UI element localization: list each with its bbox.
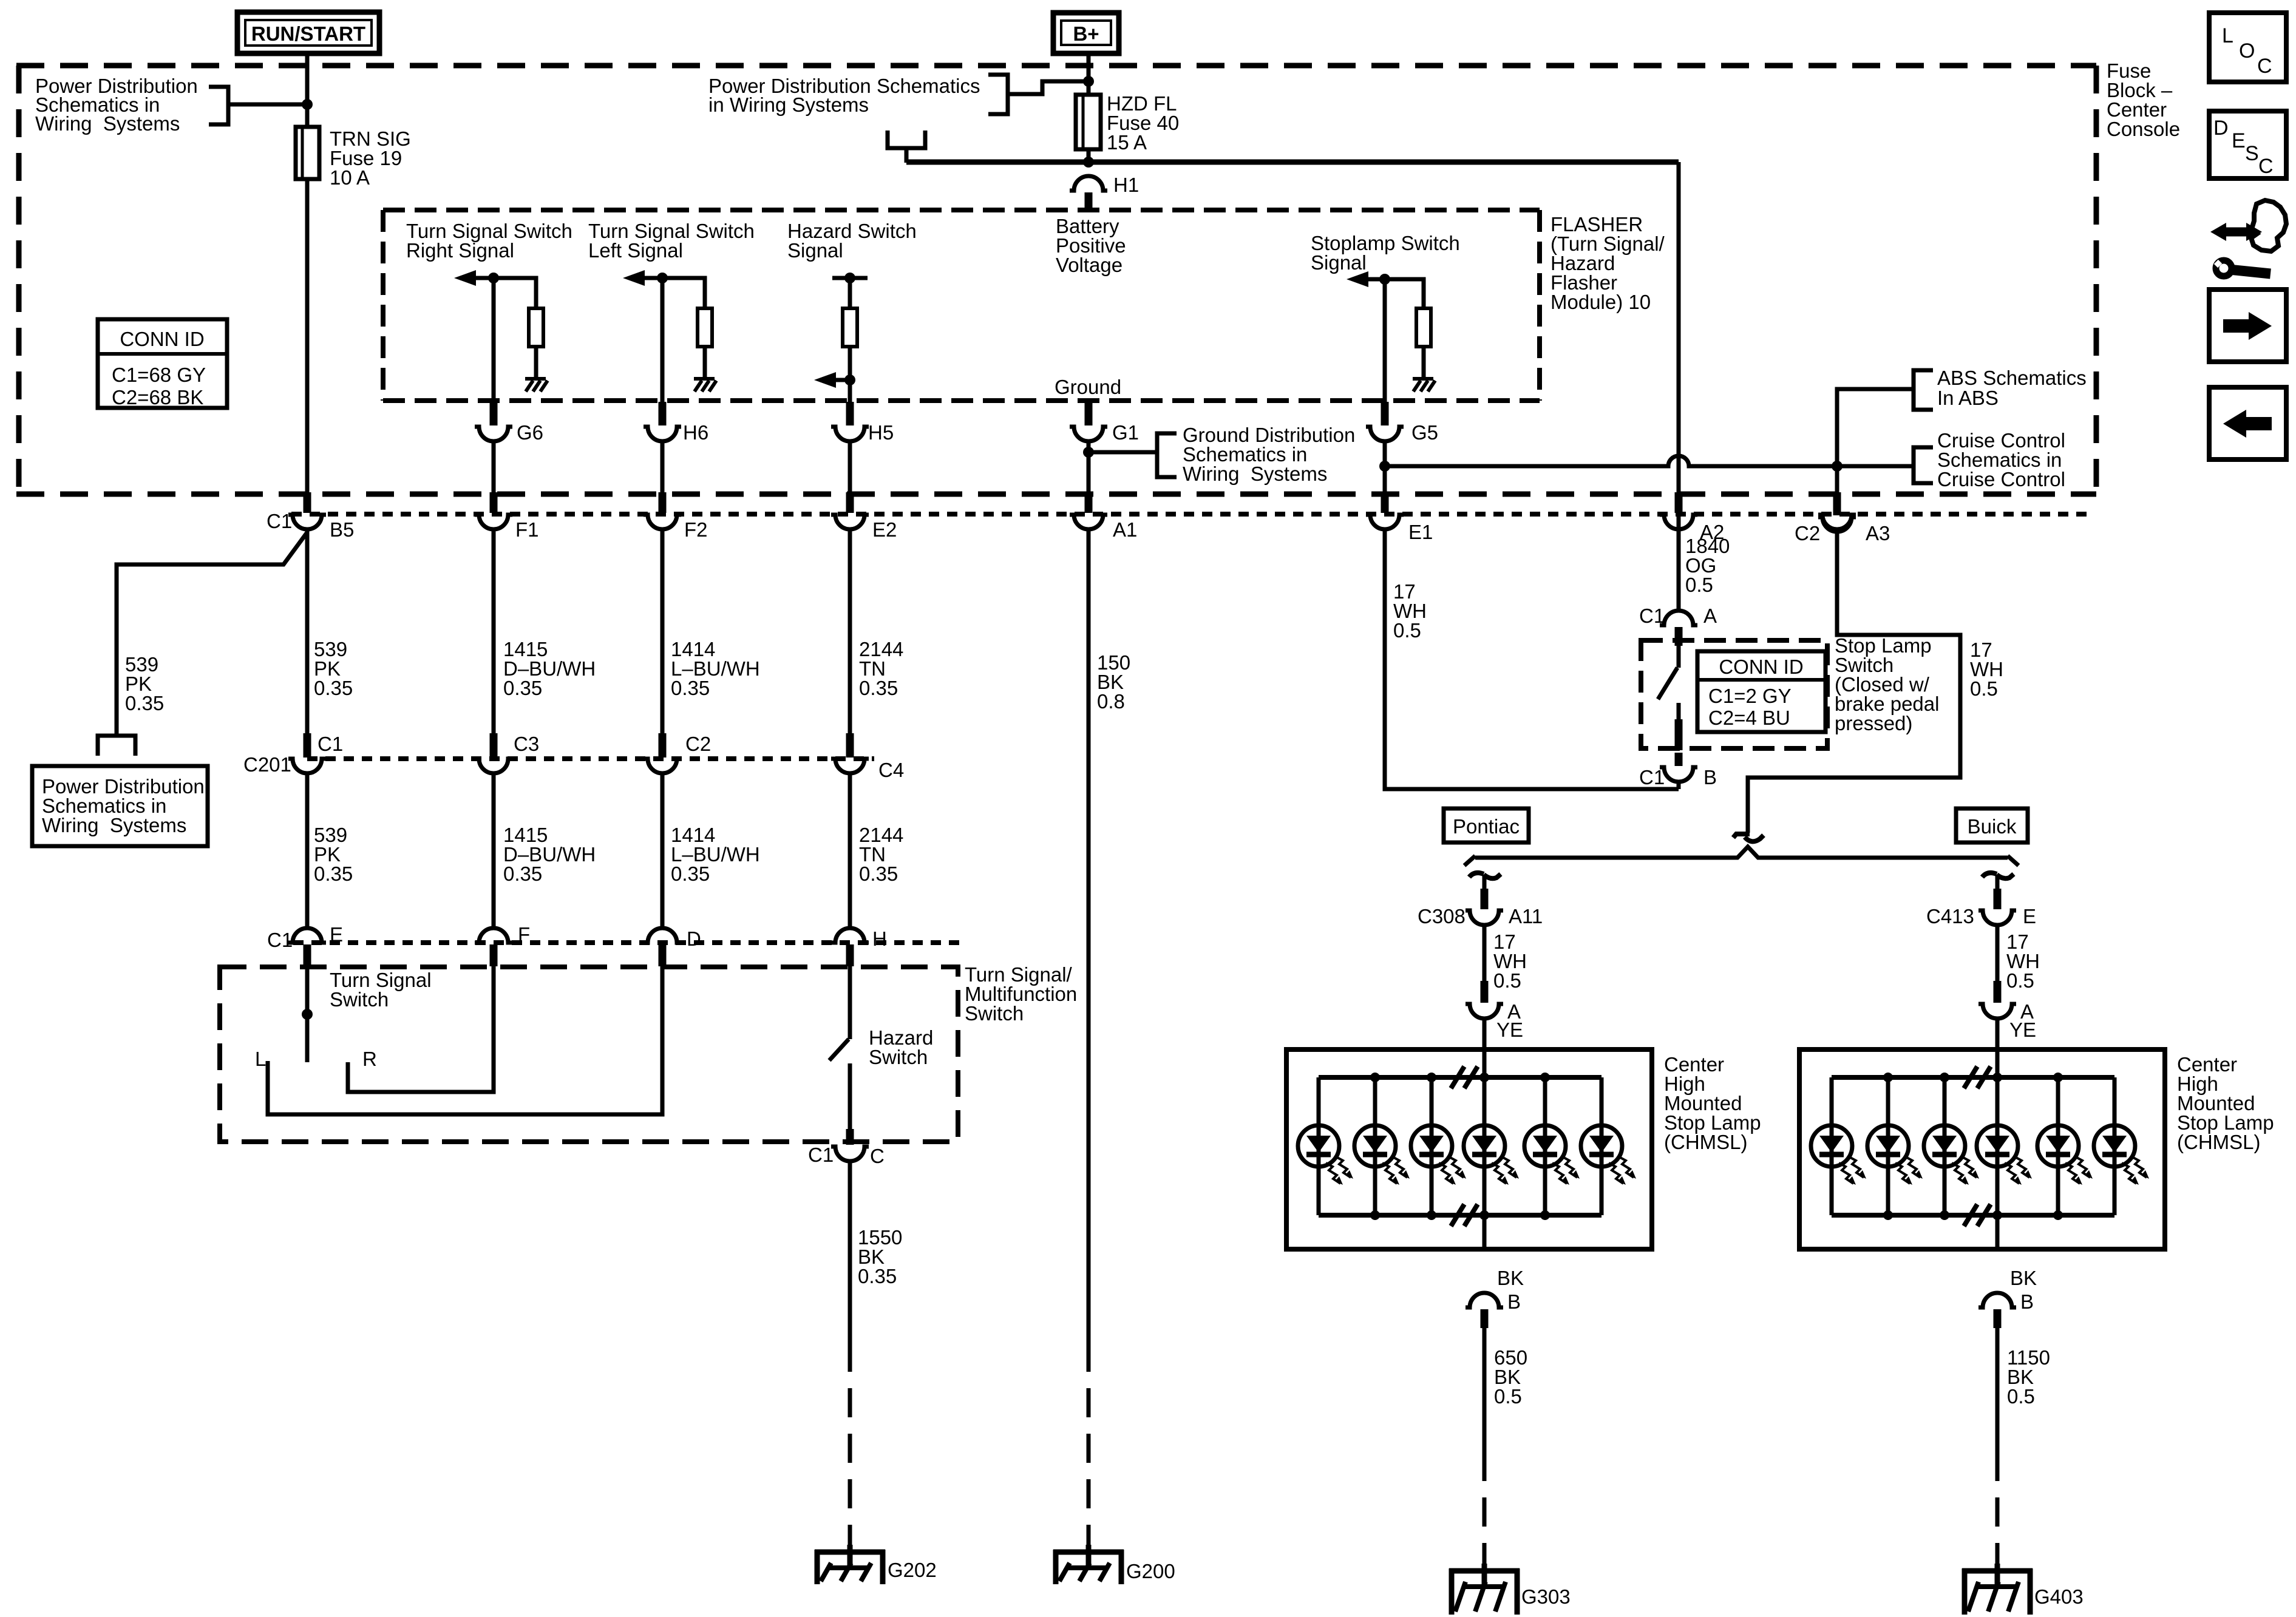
svg-text:G6: G6 <box>517 421 543 444</box>
icon double arrow <box>2210 223 2262 241</box>
resistor right signal <box>529 308 543 347</box>
junction ground bus at A3 column <box>1832 461 1843 472</box>
LED 6 pontiac <box>1581 1077 1636 1215</box>
bus break marks buick <box>1964 1066 1991 1226</box>
label circuit 17 WH 0.5 (pontiac) <box>1493 931 1527 992</box>
connector C2/A3 <box>1818 494 1856 532</box>
bus break marks pontiac <box>1451 1066 1478 1226</box>
junction top bus x=2545 pontiac <box>1540 1073 1550 1082</box>
svg-text:0.35: 0.35 <box>314 863 353 885</box>
label R contact <box>362 1048 377 1070</box>
svg-text:R: R <box>362 1048 377 1070</box>
wire C2 to switch D <box>661 773 665 929</box>
connector H5 <box>831 402 869 441</box>
net label Battery Positive Voltage <box>1056 215 1126 276</box>
svg-text:C413: C413 <box>1926 905 1974 927</box>
note Power Distribution Schematics in Wiring Systems (center) <box>708 75 980 116</box>
dashed box turn signal multifunction switch <box>220 967 958 1142</box>
pin label C1 (B) <box>1639 766 1665 788</box>
svg-text:F2: F2 <box>684 518 708 541</box>
wire G5 down <box>1383 441 1387 493</box>
svg-text:H6: H6 <box>683 421 708 444</box>
connector switch pin at x=506 <box>288 928 326 966</box>
svg-text:Switch: Switch <box>869 1046 928 1068</box>
svg-text:Voltage: Voltage <box>1056 254 1123 276</box>
icon box DESC <box>2209 111 2286 178</box>
svg-text:A1: A1 <box>1113 518 1137 541</box>
svg-text:(CHMSL): (CHMSL) <box>2177 1131 2261 1153</box>
label Turn Signal Switch Left Signal <box>588 220 755 262</box>
splice hook source <box>1733 834 1764 841</box>
icon box LOC <box>2209 13 2286 82</box>
arrow hazard output <box>814 372 850 388</box>
wire A1 down (150 BK) <box>1087 529 1091 1343</box>
resistor hazard <box>843 278 857 347</box>
pin label A3 <box>1866 522 1890 544</box>
svg-text:0.5: 0.5 <box>2006 969 2034 992</box>
connector C201 pin at x=813 <box>475 733 512 773</box>
icon box arrow left <box>2209 387 2286 459</box>
pin label C2 (A3) <box>1795 522 1820 544</box>
branch hook pontiac <box>1469 873 1501 890</box>
dashed box stop lamp switch <box>1641 640 1827 748</box>
dashed box flasher module inputs <box>383 210 1540 401</box>
svg-text:YE: YE <box>2009 1019 2036 1041</box>
svg-text:C: C <box>2257 55 2272 78</box>
wire stoplamp down to G5 <box>1383 279 1387 402</box>
junction top bus x=3290 buick <box>1992 1073 2002 1082</box>
fuse block center console dashed box <box>16 66 2096 494</box>
wire G1 to ground distribution bracket <box>1089 450 1157 455</box>
svg-text:C308: C308 <box>1418 905 1466 927</box>
pin label A (buick) <box>2020 1000 2034 1023</box>
CHMSL bus top buick <box>1832 1075 2114 1080</box>
wire to ABS bracket <box>1837 389 1914 466</box>
svg-text:0.5: 0.5 <box>1494 1385 1522 1408</box>
junction on B+ feed <box>1083 76 1094 87</box>
pin label C3 <box>514 733 539 755</box>
pin label C2 (C201) <box>685 733 711 755</box>
dashed wire to ground (pontiac) <box>1483 1452 1487 1566</box>
conn id table C1=2 GY C2=4 BU <box>1697 651 1826 732</box>
svg-text:H: H <box>872 927 887 950</box>
svg-text:G200: G200 <box>1126 1560 1175 1582</box>
LED 5 buick <box>2037 1077 2093 1215</box>
label Hazard Switch <box>869 1026 933 1068</box>
svg-text:C1: C1 <box>1639 605 1665 627</box>
svg-text:0.35: 0.35 <box>671 863 710 885</box>
junction bottom bus x=3290 buick <box>1992 1210 2002 1220</box>
label YE (buick) <box>2009 1019 2036 1041</box>
pin label F1 <box>515 518 539 541</box>
svg-text:A11: A11 <box>1509 905 1543 927</box>
wire into CHMSL buick <box>1995 1019 2000 1052</box>
wire B down (pontiac) <box>1483 1328 1487 1452</box>
wire to left signal resistor <box>662 278 705 308</box>
wire A3 jog to splice <box>1748 532 1960 833</box>
svg-text:Wiring Systems: Wiring Systems <box>35 112 180 135</box>
svg-text:C1=2 GY: C1=2 GY <box>1708 685 1792 707</box>
svg-text:0.5: 0.5 <box>1970 677 1998 700</box>
svg-text:F: F <box>518 923 530 946</box>
label G1 <box>1112 421 1139 444</box>
svg-text:E: E <box>2023 905 2036 927</box>
svg-text:C3: C3 <box>514 733 539 755</box>
icon wrench <box>2216 260 2271 276</box>
wire switch pole E <box>305 966 310 1062</box>
connector switch pin at x=1091 <box>644 928 681 966</box>
svg-text:0.35: 0.35 <box>858 1265 897 1287</box>
CHMSL feed wire pontiac <box>1483 1049 1487 1249</box>
wire B down (buick) <box>1995 1328 2000 1452</box>
junction top bus x=3390 buick <box>2053 1073 2063 1082</box>
connector pin at x=2281 row1 <box>1366 492 1404 529</box>
svg-text:C201: C201 <box>243 753 291 776</box>
dashed wire C to G202 <box>848 1343 852 1547</box>
CHMSL right bus leg pontiac <box>1600 1077 1604 1215</box>
bracket ground distribution <box>1157 433 1177 477</box>
connector A chmsl buick <box>1978 981 2016 1019</box>
wire L contact to D pin <box>268 966 662 1114</box>
CHMSL lamp box buick <box>1799 1049 2165 1249</box>
label box Pontiac <box>1444 808 1529 842</box>
wire B+ bus to stop lamp switch column <box>906 160 1679 165</box>
label Hazard Switch Signal <box>787 220 917 262</box>
pin label E <box>2023 905 2036 927</box>
svg-text:B+: B+ <box>1073 22 1099 45</box>
junction B+ bus <box>1083 157 1094 168</box>
label Stop Lamp Switch (Closed w/ brake pedal pressed) <box>1835 634 1939 734</box>
svg-text:G303: G303 <box>1521 1585 1571 1608</box>
svg-text:S: S <box>2245 142 2259 165</box>
svg-text:Ground: Ground <box>1055 376 1121 398</box>
note ABS Schematics In ABS <box>1937 367 2087 409</box>
svg-text:YE: YE <box>1496 1019 1523 1041</box>
svg-text:C2: C2 <box>685 733 711 755</box>
label L contact <box>255 1048 266 1070</box>
connector C201 pin at x=1091 <box>644 733 681 773</box>
ground G202 <box>815 1545 885 1584</box>
ground stoplamp cell <box>1413 379 1435 392</box>
LED 1 buick <box>1811 1077 1866 1215</box>
svg-text:A: A <box>1703 605 1717 627</box>
power feed box RUN/START <box>237 12 379 53</box>
connector switch pin at x=1400 <box>831 928 869 966</box>
svg-text:B: B <box>1507 1290 1521 1313</box>
connector C308 <box>1466 889 1503 925</box>
connector pin at x=1793 row1 <box>1070 492 1107 529</box>
stop lamp switch upper wire <box>1677 646 1681 668</box>
wire resistor to ground (left signal) <box>703 347 707 379</box>
wire C down (1550 BK) <box>848 1161 852 1343</box>
wire B5 to C201 <box>305 529 310 734</box>
junction bottom bus x=2445 pontiac <box>1479 1210 1489 1220</box>
wire bracket to TRN SIG feed <box>228 103 307 107</box>
junction top bus x=2265 pontiac <box>1370 1073 1380 1082</box>
pin label E <box>330 923 343 946</box>
svg-text:G1: G1 <box>1112 421 1139 444</box>
pin label A (stop lamp) <box>1703 605 1717 627</box>
arrow right signal output <box>454 270 494 286</box>
label HZD FL Fuse 40 15 A <box>1107 92 1179 154</box>
wire F1 to C3 <box>492 529 496 734</box>
label circuit 1150 BK 0.5 <box>2007 1346 2050 1408</box>
dashed wire to ground (buick) <box>1995 1452 2000 1566</box>
svg-text:0.5: 0.5 <box>2007 1385 2035 1408</box>
svg-text:B: B <box>2020 1290 2034 1313</box>
wire to stoplamp resistor <box>1385 279 1424 308</box>
dashed wire A1 to G200 <box>1087 1343 1091 1547</box>
CHMSL bus bottom pontiac <box>1319 1213 1601 1218</box>
label BK (buick) <box>2010 1267 2037 1289</box>
bracket to power distribution note (left) <box>209 87 228 124</box>
wire hazard switch bottom contact <box>848 1063 852 1130</box>
pin label H <box>872 927 887 950</box>
label G200 <box>1126 1560 1175 1582</box>
svg-text:L: L <box>255 1048 266 1070</box>
connector switch pin at x=813 <box>475 928 512 966</box>
svg-text:Left Signal: Left Signal <box>588 239 683 262</box>
wire left signal down to H6 <box>661 278 665 402</box>
wire fuse to feed junction <box>1087 149 1091 162</box>
junction bottom bus x=2265 pontiac <box>1370 1210 1380 1220</box>
svg-text:C2=4 BU: C2=4 BU <box>1708 707 1790 729</box>
svg-text:0.35: 0.35 <box>859 677 898 699</box>
svg-text:C1: C1 <box>808 1144 834 1166</box>
svg-text:CONN ID: CONN ID <box>1719 656 1803 678</box>
label Center High Mounted Stop Lamp (CHMSL) buick <box>2177 1053 2274 1153</box>
svg-text:E2: E2 <box>872 518 897 541</box>
hazard switch blade <box>829 1039 849 1060</box>
svg-text:C: C <box>870 1145 885 1167</box>
svg-text:E: E <box>2232 129 2246 152</box>
svg-text:L: L <box>2222 24 2233 47</box>
pin label C1 (C) <box>808 1144 834 1166</box>
connector pin at x=3026 row1 <box>1818 492 1856 529</box>
resistor stoplamp <box>1416 308 1431 347</box>
junction top bus x=3110 buick <box>1883 1073 1893 1082</box>
wire F2 to C2 <box>661 529 665 734</box>
wire to right signal resistor <box>494 278 536 308</box>
junction right signal <box>488 273 499 283</box>
connector H1 <box>1070 176 1107 211</box>
wire stoplamp resistor to ground <box>1422 347 1426 379</box>
wire C4 to switch H <box>848 773 852 929</box>
svg-text:Signal: Signal <box>787 239 843 262</box>
connector pin at x=813 row1 <box>475 492 512 529</box>
off-page symbol to power distribution <box>98 736 135 756</box>
wire into CHMSL pontiac <box>1483 1019 1487 1052</box>
wire C1/B to junction with E1 wire <box>1677 782 1681 789</box>
stop lamp switch blade <box>1658 668 1677 699</box>
junction bottom bus x=3203 buick <box>1940 1210 1949 1220</box>
icon hand wrench <box>2251 200 2286 251</box>
label Turn Signal Switch <box>330 969 432 1011</box>
label H6 <box>683 421 708 444</box>
pin label C1 (B5) <box>267 510 292 532</box>
wire H6 down <box>661 441 665 493</box>
svg-text:pressed): pressed) <box>1835 712 1912 734</box>
svg-text:0.5: 0.5 <box>1685 574 1713 596</box>
resistor left signal <box>698 308 712 347</box>
CHMSL left bus leg pontiac <box>1317 1077 1321 1215</box>
label G6 <box>517 421 543 444</box>
LED 1 pontiac <box>1298 1077 1353 1215</box>
pin label B (stop lamp) <box>1703 766 1717 788</box>
svg-text:0.5: 0.5 <box>1393 619 1421 642</box>
connector A chmsl pontiac <box>1466 981 1503 1019</box>
wire right signal down to G6 <box>492 278 496 402</box>
svg-text:H5: H5 <box>868 421 894 444</box>
fuse HZD FL Fuse 40 15A <box>1076 95 1101 149</box>
wire G6 down <box>492 441 496 493</box>
label H1 <box>1113 174 1139 196</box>
pin label A11 <box>1509 905 1543 927</box>
label H5 <box>868 421 894 444</box>
junction G5 ground branch <box>1379 461 1390 472</box>
label G202 <box>888 1559 937 1581</box>
wire B+ down to fuse HZD FL <box>1087 53 1091 96</box>
svg-text:15 A: 15 A <box>1107 131 1147 154</box>
svg-text:C1: C1 <box>267 510 292 532</box>
wire R contact to F pin <box>348 966 494 1092</box>
pin label F2 <box>684 518 708 541</box>
junction bottom bus x=2545 pontiac <box>1540 1210 1550 1220</box>
svg-text:Buick: Buick <box>1968 815 2017 838</box>
icon box arrow right <box>2209 290 2286 362</box>
connector B chmsl buick <box>1978 1293 2016 1328</box>
label circuit 17 WH 0.5 (E1) <box>1393 580 1427 642</box>
connector C201 pin at x=1400 <box>831 733 869 773</box>
connector C201 pin at x=506 <box>288 733 326 773</box>
ground left signal cell <box>694 379 716 392</box>
wire hazard switch top <box>848 966 852 1039</box>
svg-text:E1: E1 <box>1408 521 1433 543</box>
label G303 <box>1521 1585 1571 1608</box>
svg-text:Wiring Systems: Wiring Systems <box>1183 463 1327 485</box>
bracket to power distribution note (center) <box>988 75 1008 114</box>
svg-text:C1=68 GY: C1=68 GY <box>112 364 206 386</box>
wire E1 down and right to stop lamp output <box>1385 529 1679 789</box>
junction hazard arrow <box>844 375 855 385</box>
svg-text:Switch: Switch <box>330 988 389 1011</box>
label G5 <box>1411 421 1438 444</box>
pin label C4 <box>878 759 904 781</box>
label FLASHER module <box>1550 213 1665 313</box>
branch hook buick <box>1982 873 2014 890</box>
arrow left signal output <box>623 270 662 286</box>
wire E2 to C4 <box>848 529 852 734</box>
label circuit 1415 D-BU/WH 0.35 (lower) <box>503 824 596 885</box>
LED 3 buick <box>1924 1077 1979 1215</box>
junction hazard top <box>844 273 855 283</box>
junction top bus x=3203 buick <box>1940 1073 1949 1082</box>
label Turn Signal Switch Right Signal <box>406 220 572 262</box>
note Ground Distribution Schematics in Wiring Systems <box>1183 424 1355 485</box>
svg-text:Right Signal: Right Signal <box>406 239 514 262</box>
svg-text:Cruise Control: Cruise Control <box>1937 468 2065 490</box>
arrow stoplamp signal <box>1347 271 1385 287</box>
junction switch pole <box>302 1009 313 1020</box>
label circuit 650 BK 0.5 <box>1494 1346 1527 1408</box>
off-page symbol B+ feed <box>888 131 925 163</box>
power feed box B+ <box>1053 13 1119 53</box>
label circuit 1414 L-BU/WH 0.35 (upper) <box>671 638 760 699</box>
wire A3 column down from ground bus <box>1835 466 1839 493</box>
svg-text:BK: BK <box>2010 1267 2037 1289</box>
junction left signal <box>657 273 668 283</box>
connector pin at x=2765 row1 <box>1660 492 1697 529</box>
junction bottom bus x=2358 pontiac <box>1427 1210 1436 1220</box>
box note Power Distribution Schematics in Wiring Systems <box>32 766 208 846</box>
label circuit 2144 TN 0.35 (upper) <box>859 638 903 699</box>
label C201 <box>243 753 291 776</box>
pin label B (pontiac) <box>1507 1290 1521 1313</box>
label circuit 17 WH 0.5 (buick) <box>2006 931 2040 992</box>
wire A2 down to stop lamp switch <box>1677 162 1681 611</box>
wire ground bus G5 to cruise bracket with crossover hump <box>1385 456 1914 466</box>
label TRN SIG Fuse 19 10 A <box>330 127 411 189</box>
branch wire B5 to power distribution box <box>117 532 307 736</box>
connector G5 <box>1366 402 1404 441</box>
svg-text:Signal: Signal <box>1311 251 1367 274</box>
svg-text:G202: G202 <box>888 1559 937 1581</box>
svg-text:D: D <box>687 927 701 950</box>
svg-text:D: D <box>2213 117 2229 140</box>
note Cruise Control Schematics in Cruise Control <box>1937 429 2065 490</box>
pin label C1 (C201) <box>318 733 343 755</box>
svg-text:0.5: 0.5 <box>1493 969 1521 992</box>
label YE (pontiac) <box>1496 1019 1523 1041</box>
bracket ABS schematics <box>1914 370 1933 410</box>
svg-text:C1: C1 <box>1639 766 1665 788</box>
svg-text:G403: G403 <box>2034 1585 2084 1608</box>
connector C1/C <box>831 1129 869 1161</box>
label circuit 1414 L-BU/WH 0.35 (lower) <box>671 824 760 885</box>
label circuit 539 PK 0.35 (upper) <box>314 638 353 699</box>
ground G403 <box>1962 1564 2033 1615</box>
wire H5 down <box>848 441 852 493</box>
junction top bus x=2445 pontiac <box>1479 1073 1489 1082</box>
CHMSL bus top pontiac <box>1319 1075 1601 1080</box>
pin label C1 (switch) <box>267 929 293 951</box>
wire C1 to switch E <box>305 773 310 929</box>
label circuit 1550 BK 0.35 <box>858 1226 902 1287</box>
connector pin at x=506 row1 <box>288 492 326 529</box>
label circuit 2144 TN 0.35 (lower) <box>859 824 903 885</box>
svg-text:in Wiring Systems: in Wiring Systems <box>708 93 869 116</box>
pin label D <box>687 927 701 950</box>
connector G6 <box>475 402 512 441</box>
svg-text:B5: B5 <box>330 518 354 541</box>
CHMSL feed wire buick <box>1995 1049 2000 1249</box>
label circuit 1415 D-BU/WH 0.35 (upper) <box>503 638 596 699</box>
svg-text:0.35: 0.35 <box>314 677 353 699</box>
svg-text:H1: H1 <box>1113 174 1139 196</box>
svg-text:0.35: 0.35 <box>503 677 542 699</box>
label G403 <box>2034 1585 2084 1608</box>
pin label F <box>518 923 530 946</box>
CHMSL lamp box pontiac <box>1286 1049 1652 1249</box>
svg-text:10 A: 10 A <box>330 166 370 189</box>
label Center High Mounted Stop Lamp (CHMSL) pontiac <box>1664 1053 1761 1153</box>
label circuit 150 BK 0.8 <box>1097 651 1130 713</box>
LED 4 buick <box>1977 1077 2032 1215</box>
wire C3 to switch F <box>492 773 496 929</box>
connector B chmsl pontiac <box>1466 1293 1503 1328</box>
distribution wire with break chevron <box>1464 847 2019 866</box>
label circuit 1840 OG 0.5 <box>1685 535 1730 596</box>
